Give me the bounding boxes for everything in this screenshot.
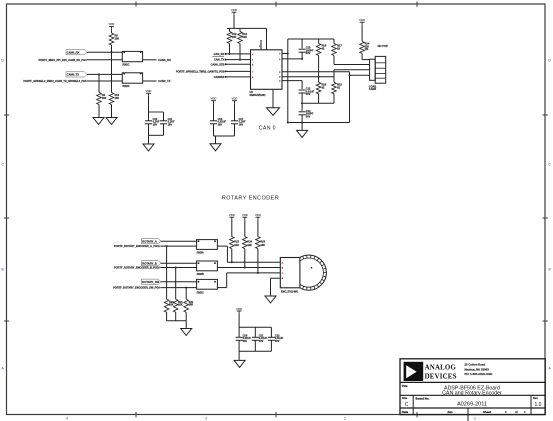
svg-text:10K: 10K bbox=[115, 38, 120, 41]
svg-text:CAN_RX: CAN_RX bbox=[214, 52, 225, 56]
svg-text:CAN0_TX: CAN0_TX bbox=[158, 79, 170, 83]
svg-text:VDD: VDD bbox=[211, 97, 217, 101]
svg-text:10K: 10K bbox=[234, 244, 239, 247]
svg-text:10K: 10K bbox=[232, 35, 237, 39]
svg-text:16V: 16V bbox=[239, 122, 244, 126]
svg-text:ANALOG: ANALOG bbox=[425, 364, 457, 371]
svg-text:RN2C: RN2C bbox=[123, 63, 130, 67]
svg-text:50V: 50V bbox=[306, 51, 311, 55]
svg-text:VDD: VDD bbox=[232, 97, 238, 101]
svg-text:CAN and Rotary Encoder: CAN and Rotary Encoder bbox=[442, 391, 502, 397]
svg-text:CAN 0: CAN 0 bbox=[259, 126, 276, 132]
svg-text:CAN0_TX: CAN0_TX bbox=[67, 73, 79, 77]
svg-text:10K: 10K bbox=[247, 244, 252, 247]
svg-text:ENC_EVQ-WK: ENC_EVQ-WK bbox=[281, 291, 298, 294]
svg-text:10K: 10K bbox=[242, 35, 247, 39]
svg-text:SN65HVD231: SN65HVD231 bbox=[250, 93, 267, 97]
svg-text:dwn: dwn bbox=[447, 410, 453, 414]
svg-text:VDD: VDD bbox=[109, 22, 115, 26]
svg-text:16V: 16V bbox=[153, 122, 158, 126]
svg-text:4: 4 bbox=[66, 417, 68, 421]
svg-text:VDD: VDD bbox=[146, 89, 152, 93]
svg-text:3: 3 bbox=[205, 417, 207, 421]
svg-text:ROTARY_A: ROTARY_A bbox=[142, 240, 157, 244]
svg-text:RN3B: RN3B bbox=[197, 272, 204, 276]
svg-text:PORTF_MISO_PPI_D15_CAN0_RX_PG4: PORTF_MISO_PPI_D15_CAN0_RX_PG4 bbox=[39, 58, 88, 62]
svg-text:VDD: VDD bbox=[359, 18, 365, 22]
svg-text:of: of bbox=[515, 410, 518, 414]
svg-text:Rev: Rev bbox=[533, 396, 538, 400]
svg-text:CAN_TX: CAN_TX bbox=[214, 58, 225, 62]
svg-text:RN3A: RN3A bbox=[197, 251, 204, 255]
svg-text:R25: R25 bbox=[261, 240, 266, 243]
svg-text:RN2D: RN2D bbox=[123, 84, 130, 88]
svg-text:VDD: VDD bbox=[236, 307, 242, 311]
svg-text:50V: 50V bbox=[275, 339, 280, 343]
svg-text:CAN0_RX: CAN0_RX bbox=[158, 58, 171, 62]
svg-text:VDD: VDD bbox=[229, 213, 235, 217]
svg-text:Size: Size bbox=[402, 396, 408, 400]
svg-text:16V: 16V bbox=[218, 122, 223, 126]
svg-text:CAN0_STB: CAN0_STB bbox=[211, 62, 225, 66]
svg-text:10K: 10K bbox=[189, 304, 194, 307]
svg-text:A0269-2011: A0269-2011 bbox=[457, 402, 487, 408]
svg-text:16V: 16V bbox=[168, 122, 173, 126]
svg-text:DEVICES: DEVICES bbox=[425, 374, 457, 381]
svg-text:2: 2 bbox=[344, 417, 346, 421]
svg-text:NO POP: NO POP bbox=[378, 44, 389, 48]
svg-text:10K: 10K bbox=[169, 304, 174, 307]
svg-text:50V: 50V bbox=[306, 114, 311, 118]
svg-text:Title: Title bbox=[402, 384, 408, 388]
svg-text:1.0: 1.0 bbox=[535, 402, 542, 408]
svg-text:PORTF_ROTARY_ENCODER_A_PG11: PORTF_ROTARY_ENCODER_A_PG11 bbox=[114, 244, 160, 248]
svg-text:PORTF_SPI0SEL2_TMR2_CAN0_TX_SP: PORTF_SPI0SEL2_TMR2_CAN0_TX_SPI0SEL3_PG5 bbox=[23, 79, 87, 83]
svg-text:50V: 50V bbox=[259, 339, 264, 343]
svg-text:PORTF_ROTARY_ENCODER_B_PG10: PORTF_ROTARY_ENCODER_B_PG10 bbox=[114, 266, 160, 270]
svg-text:R24: R24 bbox=[247, 240, 252, 243]
svg-text:VDD: VDD bbox=[242, 213, 248, 217]
svg-text:PH: 1-800-ANALOGD: PH: 1-800-ANALOGD bbox=[465, 372, 493, 376]
svg-text:CAN0: CAN0 bbox=[369, 87, 377, 91]
svg-text:CAN0_RX: CAN0_RX bbox=[67, 51, 80, 55]
svg-text:10K: 10K bbox=[102, 97, 107, 100]
svg-text:10K: 10K bbox=[115, 97, 120, 100]
svg-text:Nashua, NH 03063: Nashua, NH 03063 bbox=[465, 367, 490, 371]
svg-text:PORTF_SPI0SEL2_TMR2_CAN0TX_PG5: PORTF_SPI0SEL2_TMR2_CAN0TX_PG5 bbox=[176, 70, 225, 74]
svg-text:ROTARY_SW: ROTARY_SW bbox=[142, 280, 159, 284]
svg-text:CAN0RX: CAN0RX bbox=[214, 75, 225, 79]
svg-text:PORTF_ROTARY_ENCODER_SW_PG9: PORTF_ROTARY_ENCODER_SW_PG9 bbox=[113, 286, 160, 290]
svg-text:ROTARY_B: ROTARY_B bbox=[142, 262, 157, 266]
svg-text:10K: 10K bbox=[261, 244, 266, 247]
svg-text:VDD: VDD bbox=[231, 8, 237, 12]
svg-text:Date: Date bbox=[402, 410, 409, 414]
svg-text:RN3C: RN3C bbox=[197, 290, 204, 294]
svg-text:50V: 50V bbox=[306, 92, 311, 96]
svg-text:Board No.: Board No. bbox=[416, 397, 430, 401]
svg-text:ROTARY ENCODER: ROTARY ENCODER bbox=[222, 195, 279, 201]
svg-text:C: C bbox=[405, 402, 409, 408]
svg-text:VDD: VDD bbox=[255, 213, 261, 217]
svg-text:50V: 50V bbox=[243, 339, 248, 343]
svg-text:10K: 10K bbox=[178, 304, 183, 307]
svg-text:R23: R23 bbox=[234, 240, 239, 243]
svg-text:20 Cotton Road: 20 Cotton Road bbox=[465, 363, 486, 367]
svg-text:1: 1 bbox=[474, 417, 476, 421]
svg-text:Sheet: Sheet bbox=[483, 410, 491, 414]
